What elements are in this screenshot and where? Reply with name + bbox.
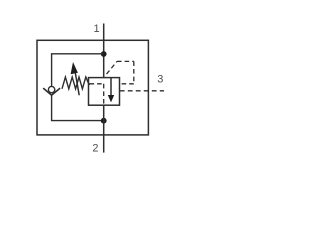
svg-text:3: 3 bbox=[157, 73, 163, 85]
pilot line: internal vertical bbox=[103, 84, 105, 104]
port 2 line bbox=[103, 105, 105, 152]
node B junction dot bbox=[101, 118, 107, 124]
adjustment arrow shaft bbox=[75, 70, 79, 95]
node A junction dot bbox=[101, 51, 107, 57]
pilot line: port 3 bbox=[120, 90, 164, 92]
check valve CV1 ball bbox=[48, 86, 54, 92]
spring S1 bbox=[62, 77, 89, 89]
wire: inner bottom branch bbox=[52, 95, 104, 120]
pilot line: loop diagonal bbox=[105, 61, 117, 76]
svg-text:2: 2 bbox=[92, 143, 98, 155]
check valve CV1 seat bbox=[43, 88, 60, 95]
relief valve V1 flow arrow head bbox=[108, 95, 114, 102]
svg-text:1: 1 bbox=[93, 23, 99, 35]
pilot line: loop top bbox=[117, 60, 134, 62]
enclosure boundary bbox=[37, 40, 148, 135]
relief valve V1 flow arrow shaft bbox=[110, 78, 112, 97]
port 1 line bbox=[103, 24, 105, 78]
relief valve V1 envelope bbox=[89, 78, 120, 106]
pilot line: internal horizontal bbox=[90, 83, 104, 85]
pilot line: loop return bbox=[120, 83, 134, 85]
pilot line: loop right vertical bbox=[133, 61, 135, 83]
wire: inner top branch bbox=[52, 54, 104, 87]
adjustment arrow head bbox=[71, 62, 78, 74]
